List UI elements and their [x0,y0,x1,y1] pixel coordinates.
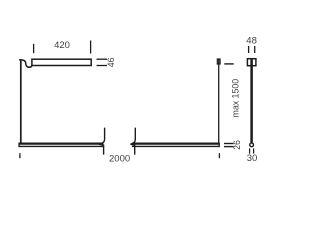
dimension 48 left tick [248,46,250,53]
dimension 26 upper tick [224,143,234,145]
svg-text:max 1500: max 1500 [230,79,240,118]
left suspension cable [20,60,22,144]
svg-text:26: 26 [232,140,242,150]
counterweight sphere [250,143,254,147]
lamp bar left segment [19,143,104,148]
profile body 420x46 [32,59,91,65]
suspension wire ceiling attachment [217,59,220,64]
dimension 2000 left tick [19,153,21,158]
svg-text:2000: 2000 [109,153,130,164]
dimension 26 lower tick [224,146,234,148]
dimension 46 upper tick [97,58,108,60]
ceiling canopy [247,59,256,66]
profile end curl [22,60,32,67]
dimension 420 right tick [90,41,92,54]
suspension wire max 1500 [218,60,220,144]
main power cable [250,59,253,142]
dimension 2000 right tick [218,153,220,158]
dimension 48 right tick [254,46,256,53]
svg-text:30: 30 [247,153,258,164]
dimension 30 left tick [249,148,251,153]
break mark left [99,128,105,155]
dimension 46 lower tick [97,65,108,67]
svg-text:46: 46 [106,57,116,67]
dimension 30 right tick [253,148,255,153]
ceiling reference dash [224,63,233,65]
break mark right [131,128,136,155]
svg-text:420: 420 [54,40,70,51]
svg-text:48: 48 [246,35,257,46]
lamp bar right segment [132,143,220,148]
dimension 420 left tick [33,44,35,53]
left cable top tick [19,59,23,61]
